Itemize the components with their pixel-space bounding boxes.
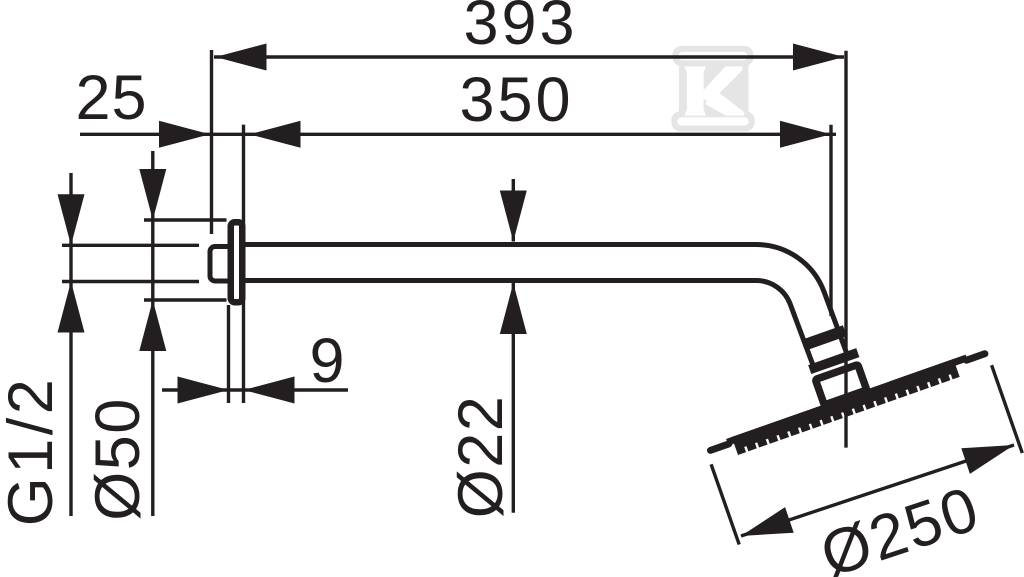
shower head left tip	[710, 444, 728, 450]
extension line flange front face	[242, 125, 245, 403]
dim 25/350 shared line	[80, 133, 836, 136]
dim D22 upper line	[512, 179, 515, 242]
svg-text:G1/2: G1/2	[0, 376, 66, 527]
dim G1/2 vertical line	[69, 173, 72, 516]
dim 9 right arrow	[244, 377, 295, 404]
dim D50 vertical line	[151, 151, 154, 516]
dim 350 right arrow	[780, 121, 831, 148]
svg-text:9: 9	[309, 326, 344, 396]
shower head slab top core	[726, 355, 968, 446]
D50 extension top	[144, 218, 227, 221]
watermark logo white K glyph	[684, 66, 744, 115]
wall connector nipple G1/2	[210, 247, 232, 282]
watermark logo white bar slots	[677, 52, 748, 126]
dim 25 right arrow	[159, 121, 210, 148]
dim D22 up arrow	[500, 283, 527, 334]
D250 extension left	[711, 464, 739, 544]
dim D22 down arrow	[500, 191, 527, 242]
dim D250 right arrow	[961, 445, 1014, 474]
svg-text:Ø22: Ø22	[446, 395, 516, 519]
connector nut block	[815, 365, 866, 405]
shower arm pipe top edge	[245, 244, 847, 353]
svg-text:393: 393	[463, 0, 577, 58]
shower head slab lower body	[732, 359, 960, 455]
dim 9 line	[162, 388, 348, 391]
dim 393 right arrow	[793, 44, 844, 71]
dim D50 down arrow	[139, 169, 166, 220]
dim D50 up arrow	[139, 300, 166, 351]
G1/2 extension bottom	[62, 280, 199, 283]
D50 extension bottom	[144, 298, 227, 301]
svg-text:Ø50: Ø50	[83, 397, 153, 521]
dim 9 left arrow	[178, 377, 229, 404]
arm-to-head collar band 1	[801, 325, 846, 350]
watermark logo gray tile (KFA K mark)	[671, 46, 754, 132]
extension line flange back face	[227, 305, 230, 403]
svg-text:25: 25	[75, 63, 147, 133]
dim D250 left arrow	[741, 507, 794, 536]
shower head right tip	[967, 354, 985, 360]
wall flange plate	[231, 222, 243, 302]
dim 393 left arrow	[216, 44, 267, 71]
dim 350 left arrow	[250, 121, 301, 148]
G1/2 extension top	[62, 244, 199, 247]
dim G1/2 down arrow	[58, 194, 85, 245]
shower arm pipe bottom edge	[245, 280, 814, 366]
dim G1/2 up arrow	[58, 282, 85, 333]
D250 extension right	[992, 365, 1023, 453]
dim 393 line	[214, 55, 844, 58]
dim D22 lower line	[512, 283, 515, 513]
svg-text:350: 350	[459, 65, 573, 135]
shower head nozzle slits	[744, 374, 953, 452]
dim D250 line	[741, 445, 1014, 536]
extension line arm end	[829, 125, 832, 316]
extension line wall plane	[210, 50, 213, 234]
arm-to-head collar band 2	[808, 348, 859, 374]
extension line head centre	[844, 51, 847, 448]
